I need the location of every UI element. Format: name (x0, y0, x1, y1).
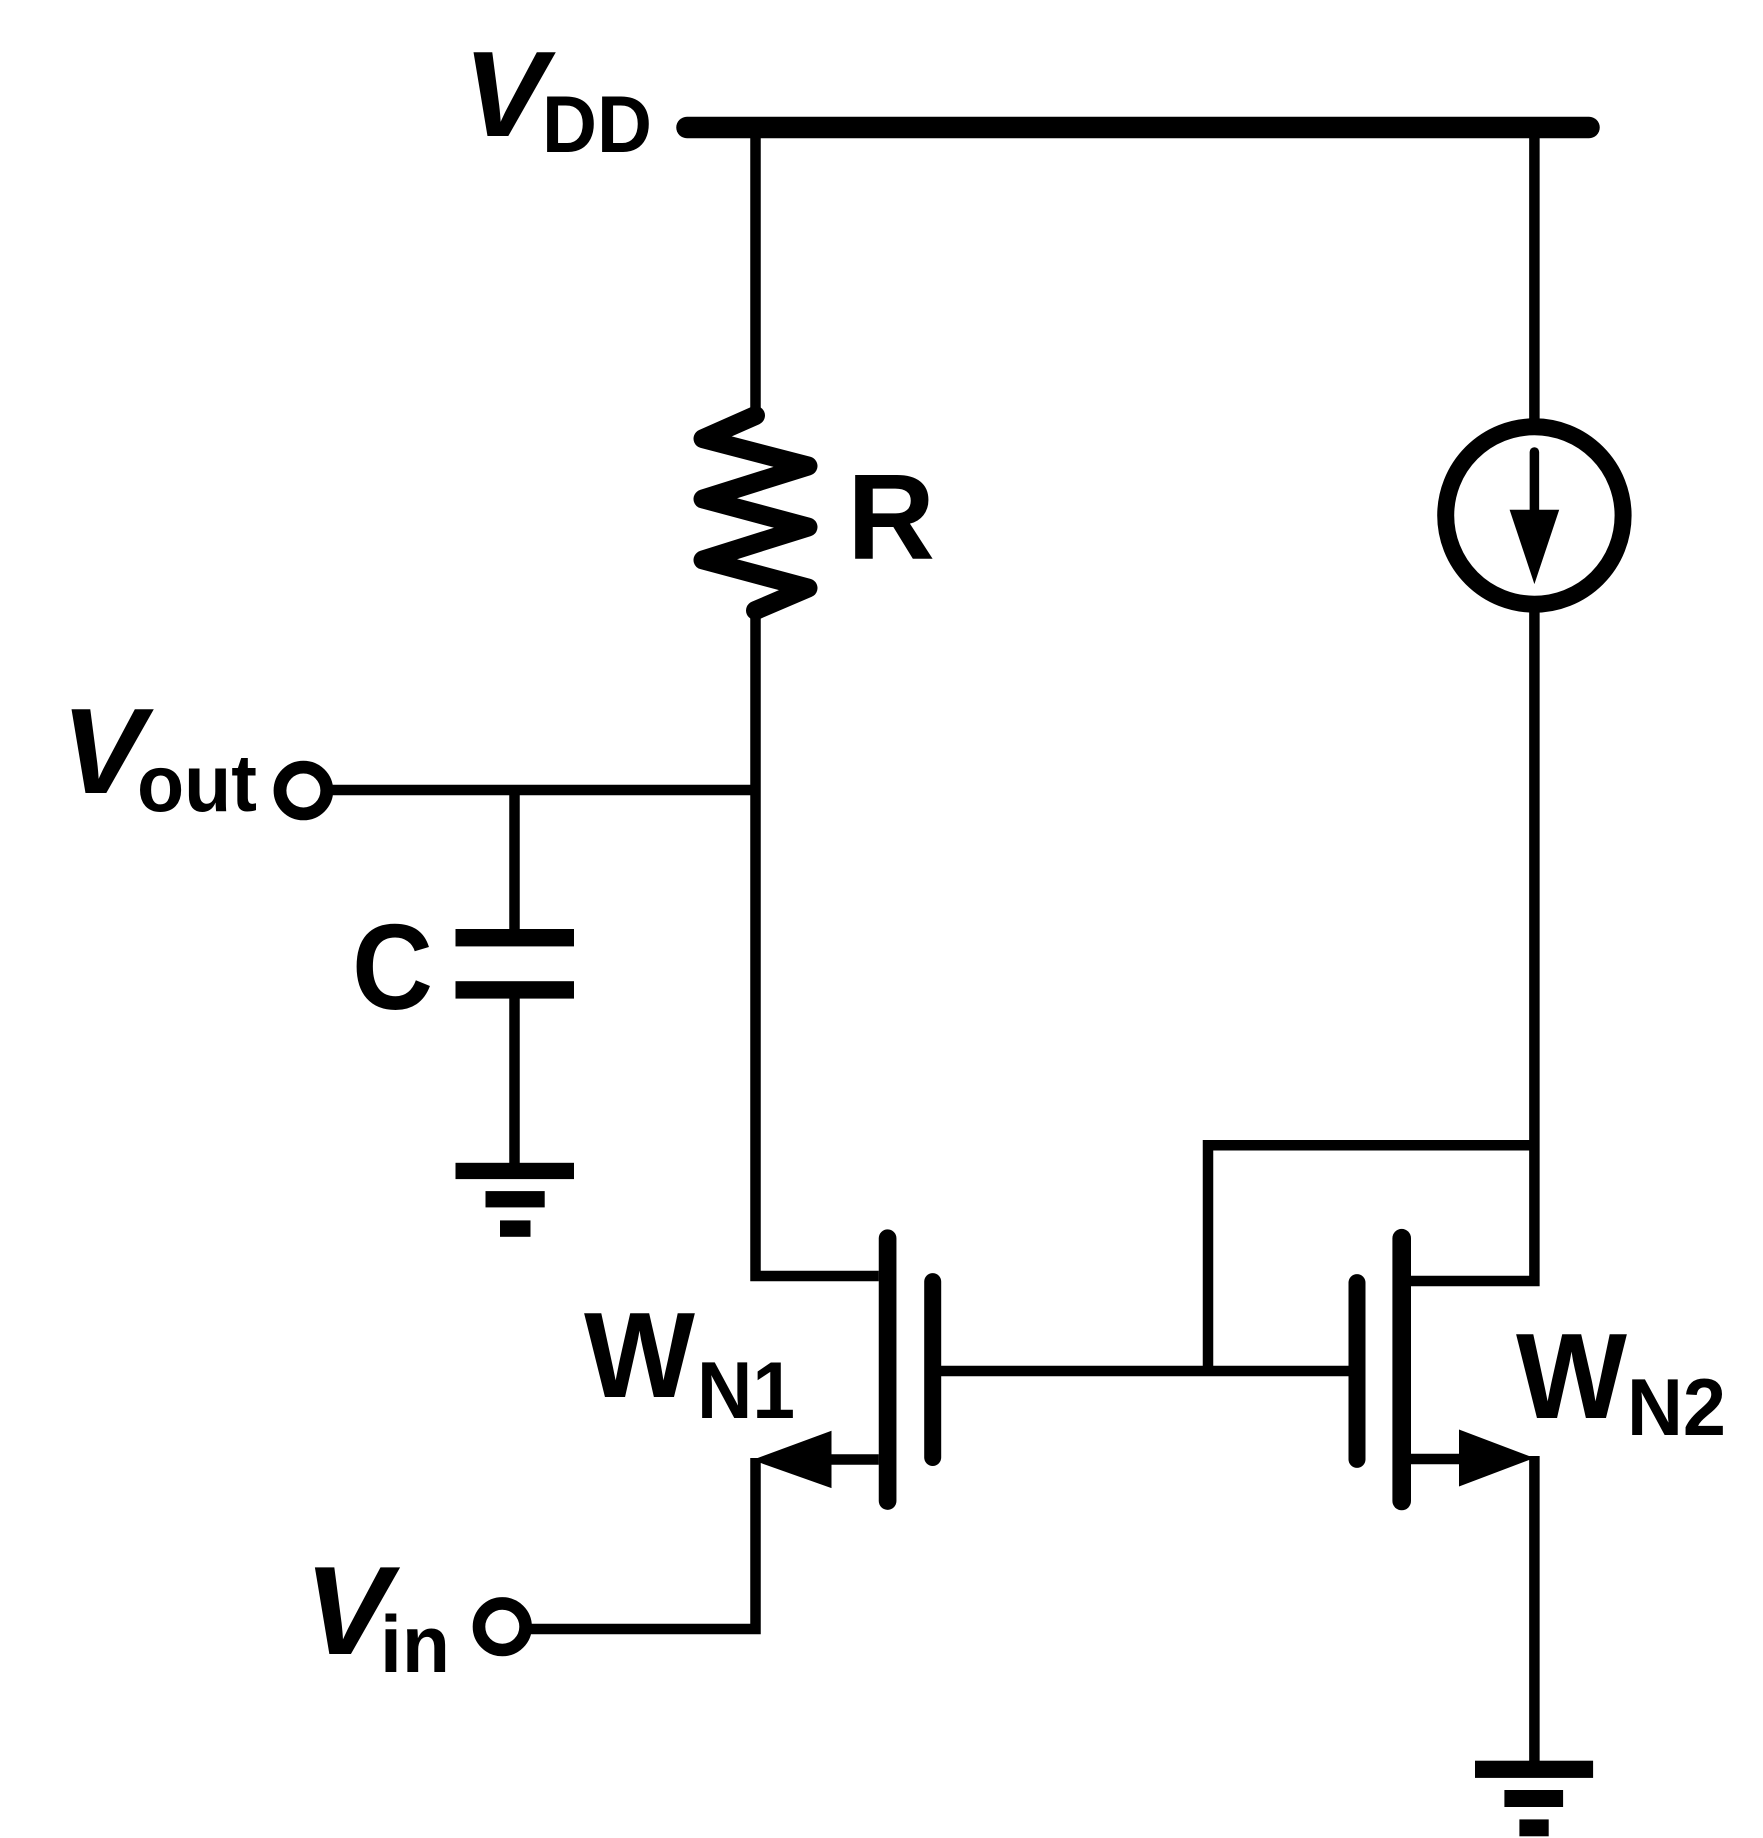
node Vout junction wire (330, 785, 758, 796)
wire capacitor to ground (509, 996, 520, 1165)
capacitor C (456, 929, 575, 946)
svg-text:W: W (1516, 1308, 1628, 1444)
resistor R (703, 416, 808, 611)
ground (below WN2) (1475, 1761, 1593, 1778)
svg-text:in: in (380, 1600, 450, 1690)
wire Vout node to capacitor C (509, 790, 520, 932)
transistor WN2 source lead (1411, 1454, 1462, 1465)
svg-text:out: out (137, 739, 257, 829)
wire WN2 gate-drain tie (1208, 1145, 1534, 1371)
wire WN2 source to ground (1529, 1456, 1540, 1763)
svg-text:R: R (847, 449, 935, 585)
svg-text:N2: N2 (1627, 1363, 1726, 1453)
svg-text:W: W (584, 1287, 696, 1423)
svg-text:DD: DD (542, 80, 652, 170)
wire resistor to WN1 drain (through Vout node) (756, 606, 879, 1276)
transistor WN1 source arrow (752, 1431, 831, 1488)
current source I1 (1446, 427, 1623, 604)
wire current source to WN2 drain (1411, 608, 1534, 1281)
transistor WN1 source lead (828, 1454, 879, 1465)
transistor WN2 channel bar (1392, 1238, 1411, 1501)
transistor WN1 gate bar (924, 1282, 941, 1458)
svg-text:N1: N1 (697, 1346, 795, 1436)
transistor WN1 channel bar (879, 1238, 897, 1501)
ground (below C) (456, 1163, 575, 1179)
transistor WN2 source arrow (1459, 1430, 1534, 1487)
svg-text:C: C (352, 899, 433, 1035)
wire gate line WN1 to WN2 (933, 1366, 1357, 1377)
wire VDD rail to current source (1529, 130, 1540, 425)
transistor WN2 gate bar (1349, 1283, 1366, 1460)
wire WN1 source to Vin (528, 1458, 756, 1629)
power rail VDD (687, 117, 1589, 139)
terminal Vin (479, 1603, 526, 1650)
wire VDD rail to resistor R (750, 130, 761, 420)
terminal Vout (280, 767, 327, 814)
